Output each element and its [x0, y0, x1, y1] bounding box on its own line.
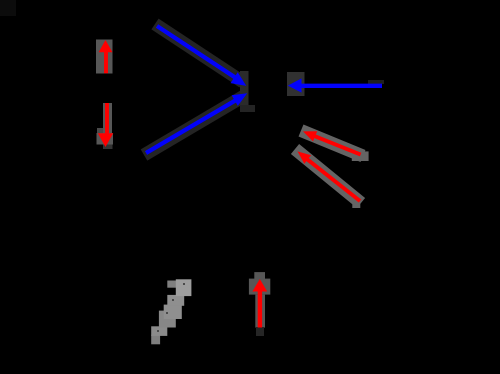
dark speck in hashed bond 3	[166, 312, 168, 314]
halo box of left red up-arrow	[96, 40, 113, 74]
halo of right red arrow B	[295, 149, 361, 203]
faint block below down-arrow head	[103, 145, 113, 150]
halo of blue arrow 1	[155, 24, 243, 82]
blue arrow 1 stem	[157, 26, 237, 79]
halo box behind bottom red arrow head	[249, 279, 270, 295]
halo block past arrow B tail	[352, 199, 360, 208]
halo notch left of down-arrow head	[97, 128, 103, 143]
red up-arrow stem	[104, 52, 108, 73]
blue arrow 1 head	[231, 72, 247, 86]
halo top block of bottom red arrow	[254, 272, 265, 280]
red arrow A stem	[312, 135, 361, 155]
top-left corner patch	[0, 0, 16, 16]
dark speck in hashed bond 1	[183, 283, 185, 285]
halo block below junction	[240, 105, 255, 112]
gray hashed-bond block g (bottom)	[151, 335, 160, 345]
gray hashed-bond block a (top)	[176, 279, 192, 296]
halo band of left red down-arrow	[103, 103, 112, 134]
halo box behind down-arrow head	[97, 133, 114, 145]
halo band along bottom red arrow stem	[255, 295, 265, 328]
halo of right red arrow A	[301, 131, 363, 157]
dark speck in hashed bond 2	[172, 299, 174, 301]
bottom red arrow head	[252, 279, 267, 292]
red arrow B head	[298, 151, 312, 163]
red arrow B stem	[306, 158, 360, 201]
blue arrow 3 stem	[299, 84, 382, 88]
blue arrow 2 stem	[146, 100, 237, 154]
halo strip above blue arrow 3 stem	[368, 80, 384, 84]
halo of blue arrow 2	[144, 96, 244, 155]
blue arrow 3 head	[288, 78, 302, 92]
halo of blue arrow 3 head	[287, 72, 305, 96]
red down-arrow stem	[105, 103, 109, 134]
gray hashed-bond block e	[159, 311, 176, 328]
bottom red arrow stem	[258, 290, 262, 328]
dark speck in hashed bond 4	[157, 330, 159, 332]
red up-arrow head	[99, 40, 113, 52]
halo band at blue arrow junction	[240, 71, 249, 106]
gray hashed-bond block f	[151, 326, 167, 336]
red arrow A head	[303, 131, 317, 141]
blue arrow 2 head	[232, 93, 248, 106]
red down-arrow head	[98, 133, 113, 147]
gray hashed-bond block d	[164, 305, 182, 319]
gray hashed-bond block c	[167, 295, 184, 306]
gray hashed-bond block b	[167, 281, 177, 288]
halo block at arrow A tail	[352, 151, 369, 161]
faint tail below bottom red arrow	[256, 327, 264, 336]
